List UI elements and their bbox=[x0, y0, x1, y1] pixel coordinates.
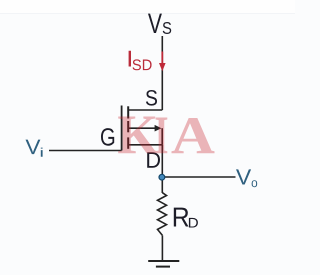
pin label G bbox=[101, 128, 114, 146]
label RD bbox=[174, 208, 198, 228]
node junction dot bbox=[159, 174, 165, 180]
wire node to Vo bbox=[162, 176, 236, 178]
Q1 channel segment middle bbox=[127, 121, 129, 132]
wire VS to source bbox=[161, 36, 163, 110]
Q1 drain stub bbox=[128, 144, 162, 146]
label ISD bbox=[129, 51, 152, 71]
current arrow ISD bbox=[159, 52, 166, 72]
input label Vi bbox=[26, 140, 43, 157]
wire Vi to gate bbox=[49, 150, 122, 152]
Q1 gate bar bbox=[121, 106, 123, 151]
pin label D bbox=[147, 152, 160, 167]
Q1 source stub bbox=[128, 109, 162, 111]
Q1 body-drain tie bbox=[161, 128, 163, 145]
Q1 channel segment top bbox=[127, 106, 129, 118]
watermark KIA bbox=[118, 117, 214, 154]
wire drain to node bbox=[161, 145, 163, 193]
supply label VS bbox=[148, 14, 171, 34]
output label Vo bbox=[236, 169, 257, 187]
ground bbox=[148, 261, 179, 267]
transistor Q1 (PMOS) bbox=[122, 106, 163, 151]
pin label S bbox=[146, 90, 157, 106]
wire resistor to ground bbox=[161, 235, 163, 261]
Q1 body arrow bbox=[128, 127, 156, 129]
Q1 channel segment bottom bbox=[127, 137, 129, 148]
resistor RD bbox=[158, 193, 167, 236]
